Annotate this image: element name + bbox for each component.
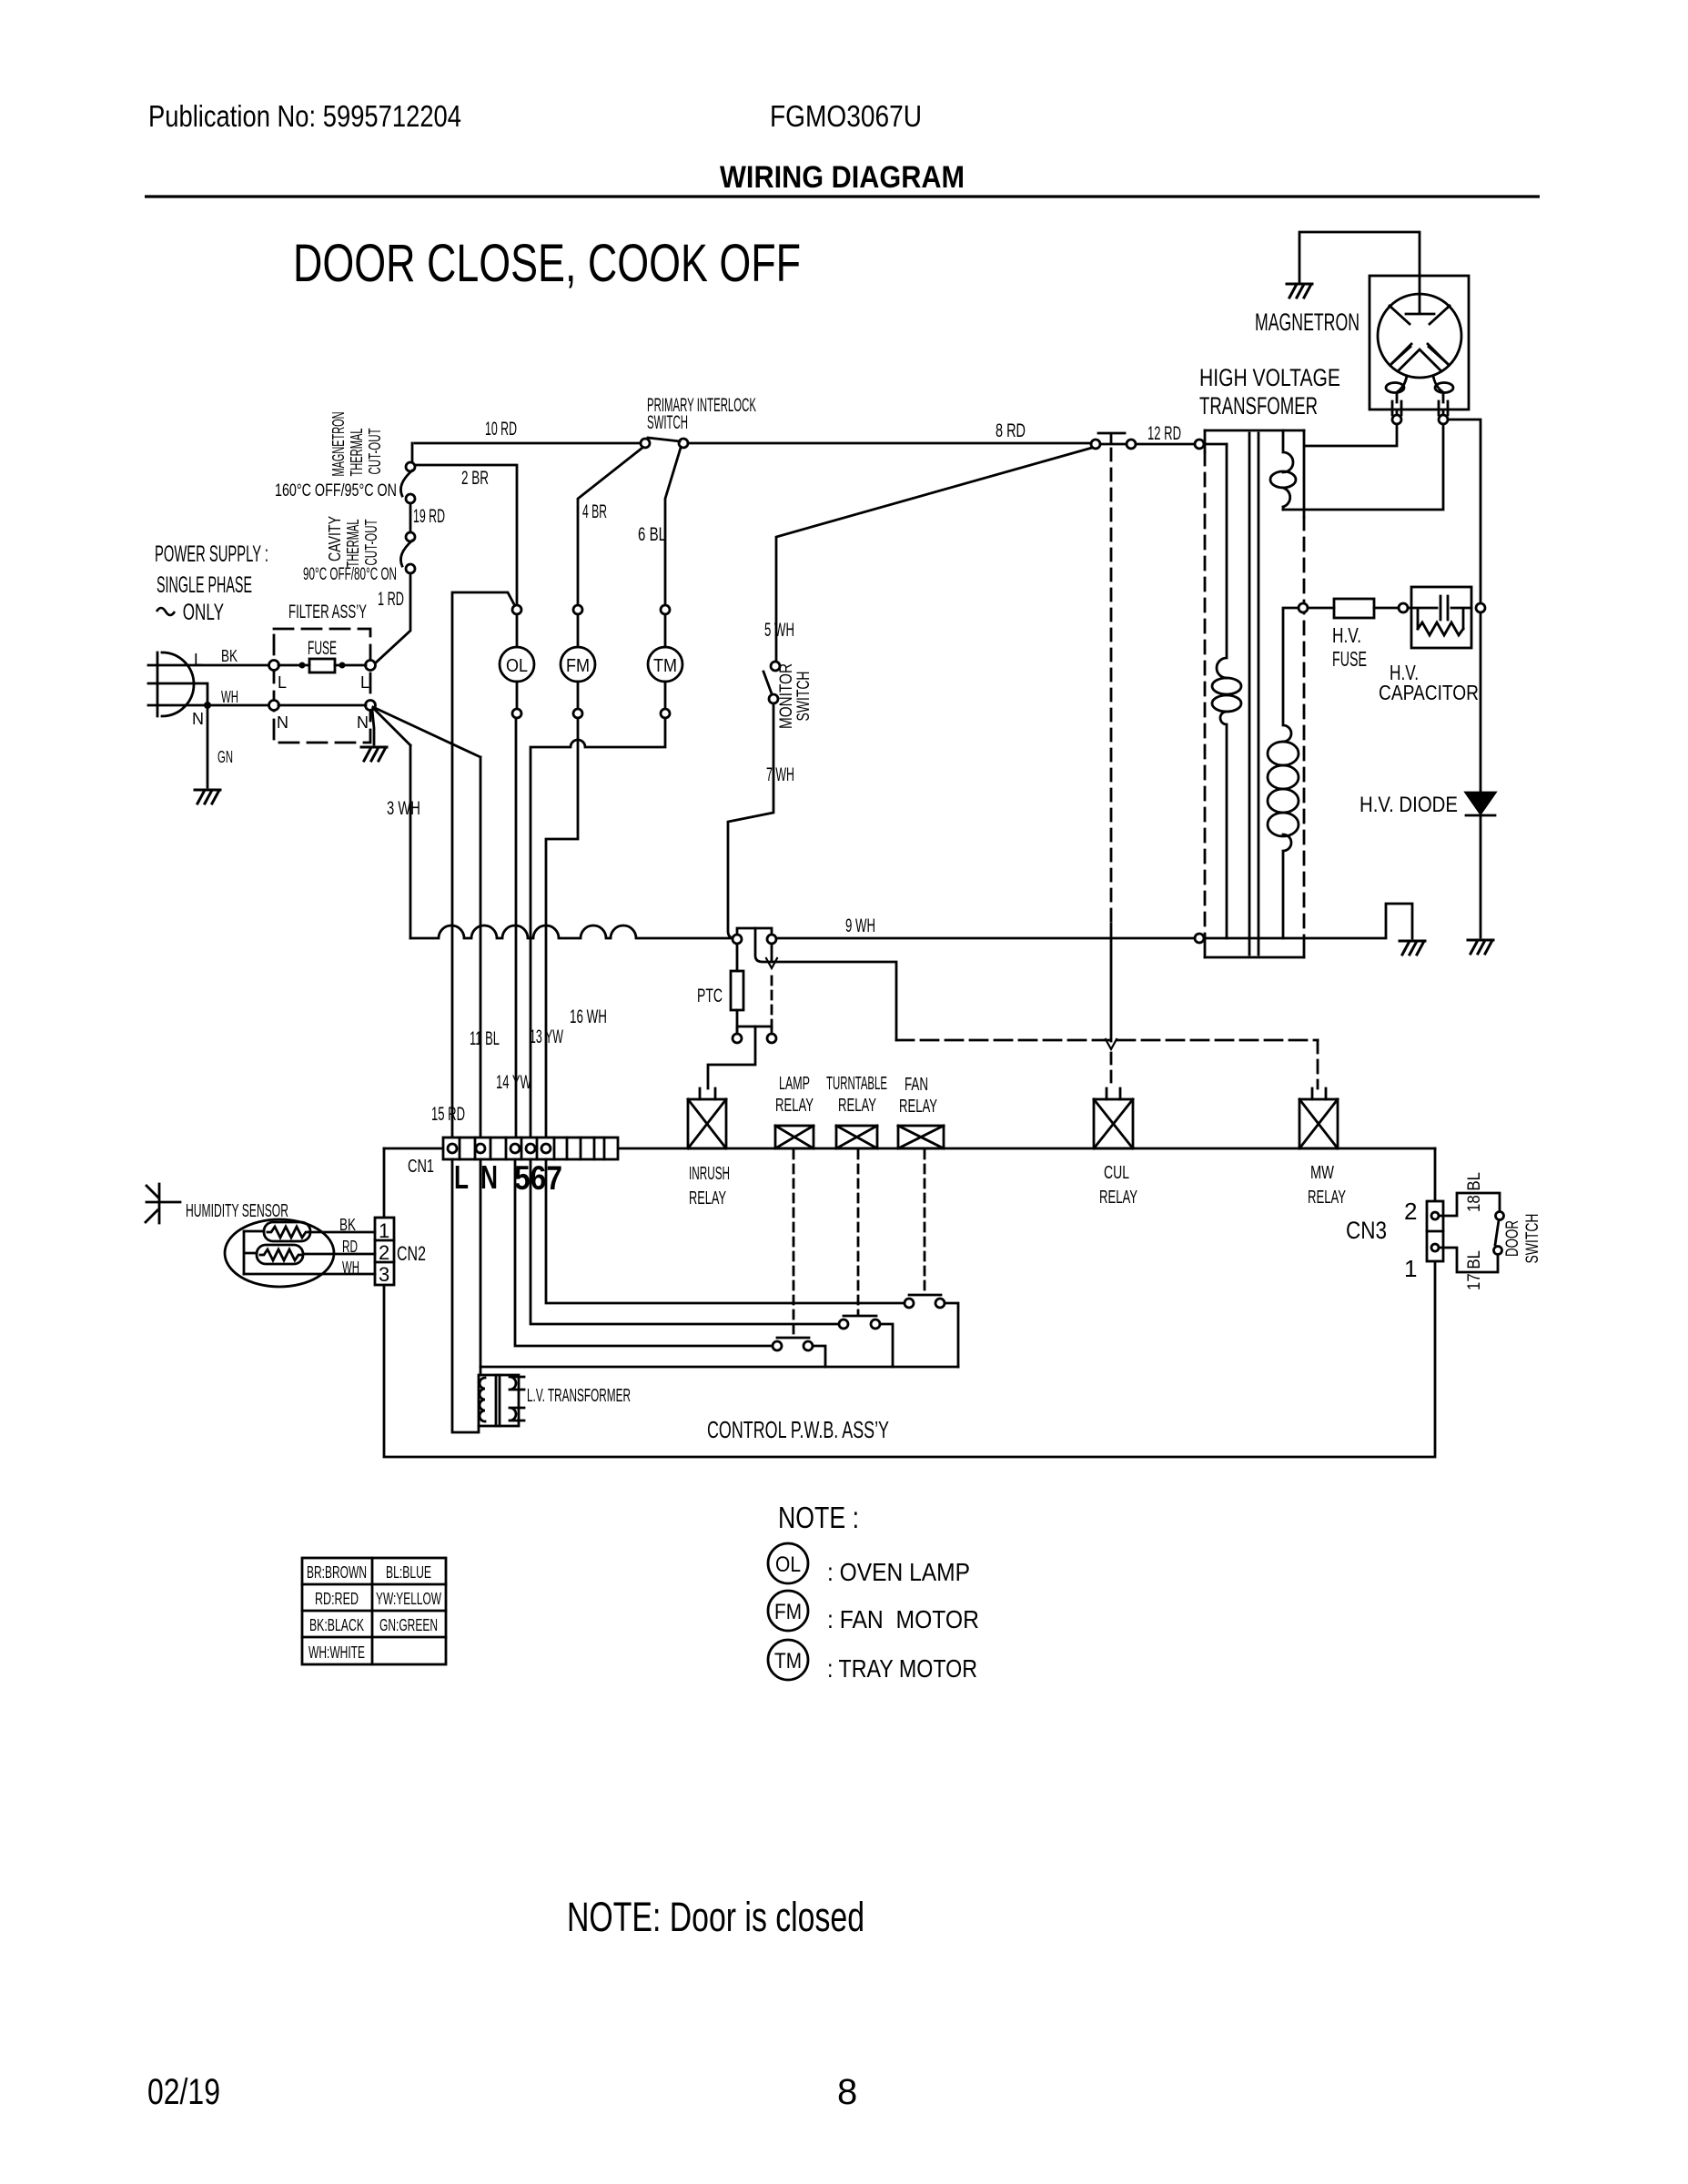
svg-text:2 BR: 2 BR [461, 468, 489, 489]
HV capacitor box [1411, 587, 1471, 648]
wire 5WH to monitor switch [776, 448, 1092, 662]
svg-text:8: 8 [837, 2072, 857, 2112]
wire L to LV transformer [452, 1159, 479, 1432]
svg-text:GN: GN [217, 748, 233, 766]
node 12RD start [1127, 440, 1136, 449]
fan relay contact [905, 1299, 914, 1308]
wire 12RD [1136, 443, 1195, 446]
svg-text:N: N [480, 1158, 498, 1196]
wire 1RD to filter L [374, 573, 410, 664]
inrush relay coil box [688, 1099, 726, 1148]
wire 5 to lamp relay contact [515, 1159, 773, 1346]
wire 13YW tray motor to CN1 with hop [531, 718, 665, 1137]
svg-text:MW: MW [1310, 1163, 1334, 1183]
header rule [145, 195, 1540, 197]
svg-text:N: N [357, 713, 369, 732]
ground at diode [1468, 940, 1493, 954]
svg-text:13 YW: 13 YW [530, 1026, 563, 1047]
svg-text:TM: TM [653, 656, 677, 676]
turntable relay coil box [836, 1126, 877, 1148]
svg-text:L: L [194, 651, 203, 669]
monitor switch blade [763, 672, 773, 696]
svg-text:DOOR CLOSE, COOK OFF: DOOR CLOSE, COOK OFF [293, 234, 801, 293]
HV diode D1 [1466, 793, 1495, 814]
ground at filter [361, 747, 387, 761]
filter terminal N left [269, 701, 279, 711]
wire 15RD vertical to CN1 [452, 592, 515, 1137]
svg-text:INRUSH: INRUSH [689, 1164, 730, 1184]
primary interlock switch right contact [679, 439, 688, 448]
door switch upper contact [1496, 1212, 1504, 1220]
door switch blade [1495, 1220, 1499, 1245]
magnetron thermal cutout upper contact [406, 462, 415, 471]
magnetron thermal cutout blade [400, 470, 412, 496]
wire 6 to turntable relay contact [531, 1159, 839, 1324]
wire 8RD from interlock to junction [688, 442, 1091, 445]
svg-text:90°C OFF/80°C ON: 90°C OFF/80°C ON [303, 565, 397, 584]
monitor switch upper contact [771, 662, 780, 671]
wire plug L prong BK [148, 664, 269, 667]
control board left link to CN1 [384, 1148, 443, 1150]
wire capacitor rail down to diode [1480, 612, 1482, 793]
svg-text:16 WH: 16 WH [570, 1006, 607, 1027]
svg-text:POWER SUPPLY :: POWER SUPPLY : [155, 541, 268, 567]
magnetron filament leads and feedthrough ticks [1392, 376, 1448, 416]
svg-text:RELAY: RELAY [899, 1097, 937, 1117]
ground at plug GN [195, 790, 220, 804]
svg-text:TM: TM [774, 1649, 802, 1673]
svg-text:567: 567 [514, 1159, 562, 1197]
HV transformer filament winding top right [1283, 430, 1293, 510]
filter terminal L right [366, 661, 376, 671]
svg-text:MAGNETRON: MAGNETRON [329, 412, 348, 477]
svg-text:LAMP: LAMP [779, 1074, 810, 1094]
svg-text:WH:WHITE: WH:WHITE [308, 1643, 365, 1662]
svg-text:SWITCH: SWITCH [794, 672, 814, 722]
wire left filament to transformer [1306, 424, 1397, 446]
node oven lamp top [512, 605, 521, 614]
filter terminal L left [269, 661, 279, 671]
svg-text:FILTER ASS’Y: FILTER ASS’Y [288, 602, 367, 622]
wire return through transformer with notch to ground [1204, 904, 1412, 938]
lower bridge [737, 1026, 772, 1034]
svg-text:1: 1 [1404, 1255, 1417, 1282]
svg-text:FM: FM [774, 1600, 802, 1624]
wire HV fuse line [1308, 607, 1411, 610]
turntable relay contact [839, 1319, 848, 1329]
lamp relay contact [773, 1341, 782, 1350]
svg-text:8 RD: 8 RD [996, 420, 1026, 441]
legend OL circle [768, 1543, 808, 1583]
node tray motor top [661, 605, 670, 614]
svg-text:: FAN MOTOR: : FAN MOTOR [827, 1605, 979, 1633]
LV transformer core [496, 1375, 500, 1426]
svg-text:OL: OL [506, 656, 528, 676]
wire 14YW oven lamp to CN1 [515, 718, 518, 1137]
relay common row [480, 1366, 958, 1369]
svg-text:ONLY: ONLY [178, 600, 224, 625]
svg-text:7 WH: 7 WH [766, 764, 794, 785]
svg-text:THERMAL: THERMAL [344, 520, 362, 568]
magnetron cathode bar [1406, 313, 1434, 316]
svg-text:N: N [192, 710, 204, 728]
magnetron filament terminal right [1439, 415, 1448, 424]
svg-text:RELAY: RELAY [689, 1188, 726, 1208]
antenna symbol [146, 1184, 180, 1223]
svg-text:SWITCH: SWITCH [1523, 1214, 1542, 1264]
svg-text:1: 1 [379, 1219, 389, 1242]
svg-text:GN:GREEN: GN:GREEN [379, 1616, 438, 1634]
ground at transformer return [1400, 941, 1425, 955]
HV transformer secondary HV winding [1283, 608, 1299, 938]
svg-text:SINGLE PHASE: SINGLE PHASE [157, 572, 252, 598]
wire filter N internal [278, 704, 366, 707]
svg-text:15 RD: 15 RD [431, 1104, 465, 1125]
door switch wiring 18BL [1439, 1193, 1500, 1216]
svg-text:BK: BK [221, 647, 238, 665]
svg-text:FAN: FAN [905, 1075, 928, 1095]
svg-text:2: 2 [1404, 1198, 1417, 1225]
fan motor FM circle [577, 614, 580, 709]
svg-text:160°C OFF/95°C ON: 160°C OFF/95°C ON [275, 481, 397, 500]
svg-text:1 RD: 1 RD [378, 589, 404, 610]
svg-text:N: N [277, 713, 288, 732]
CN3 connector box [1427, 1201, 1443, 1261]
svg-text:3: 3 [379, 1263, 389, 1286]
inrush bypass left contact [733, 935, 742, 944]
svg-text:NOTE :: NOTE : [778, 1501, 859, 1534]
ground at magnetron anode [1287, 284, 1312, 298]
lamp relay coil box [775, 1126, 814, 1148]
cavity thermal cutout lower contact [406, 564, 415, 573]
svg-text:: TRAY MOTOR: : TRAY MOTOR [827, 1654, 977, 1683]
wire sensor BK to CN2 pin1 [310, 1231, 375, 1234]
svg-text:RELAY: RELAY [838, 1096, 876, 1116]
wire N to relay common row [480, 1159, 482, 1375]
svg-text:12 RD: 12 RD [1147, 423, 1181, 444]
svg-text:BK: BK [339, 1216, 356, 1234]
svg-text:TURNTABLE: TURNTABLE [826, 1074, 887, 1094]
svg-text:RD:RED: RD:RED [315, 1590, 359, 1608]
svg-text:MONITOR: MONITOR [777, 663, 796, 729]
LV transformer primary coil [480, 1378, 485, 1421]
svg-text:14 YW: 14 YW [496, 1072, 531, 1093]
humidity sensor element 2 [257, 1245, 303, 1264]
primary interlock switch blade [648, 438, 680, 441]
wire magnetron anode loop [1299, 232, 1420, 313]
svg-text:CUL: CUL [1104, 1163, 1129, 1183]
wire 6BL to tray motor [665, 448, 681, 605]
wire 4BR to fan motor [578, 448, 642, 605]
choke coil on 9WH line [410, 925, 733, 938]
wire right filament to transformer coil [1283, 424, 1443, 510]
svg-text:TRANSFOMER: TRANSFOMER [1199, 392, 1318, 420]
fuse F1 in filter [278, 664, 366, 667]
node fan motor top [573, 605, 582, 614]
svg-text:9 WH: 9 WH [845, 915, 875, 936]
svg-text:WH: WH [221, 688, 238, 706]
door switch lower contact [1494, 1247, 1502, 1255]
svg-text:DOOR: DOOR [1503, 1220, 1522, 1257]
PTC lower contact [733, 1034, 742, 1043]
power plug body [157, 652, 194, 716]
PTC resistor [736, 944, 739, 1034]
wire right filament to capacitor rail [1448, 420, 1481, 603]
inrush bypass right contact [767, 935, 776, 944]
magnetron thermal cutout lower contact [406, 494, 415, 503]
HV transformer outer box bottom [1205, 956, 1304, 959]
wire sensor WH to CN2 pin3 [244, 1273, 375, 1276]
svg-text:L: L [360, 673, 369, 692]
svg-text:6 BL: 6 BL [638, 524, 666, 545]
CN1 terminal strip [443, 1137, 618, 1159]
svg-text:02/19: 02/19 [147, 2072, 220, 2112]
tray motor bottom contact [661, 709, 670, 718]
svg-text:OL: OL [775, 1552, 801, 1577]
magnetron filament ellipse right [1435, 383, 1453, 393]
color code table [302, 1558, 446, 1664]
svg-text:H.V.: H.V. [1332, 623, 1361, 647]
node capacitor right [1476, 603, 1485, 612]
dashed linkage to lower contact [771, 976, 773, 1031]
svg-text:CONTROL P.W.B. ASS’Y: CONTROL P.W.B. ASS’Y [707, 1416, 889, 1443]
tilde symbol [157, 608, 175, 615]
wire 3WH filter N to choke [373, 708, 410, 938]
HV transformer outer box right dashed edge [1303, 430, 1306, 957]
svg-text:WIRING DIAGRAM: WIRING DIAGRAM [720, 160, 965, 195]
filter ground lead [372, 710, 374, 744]
node HV winding to fuse [1299, 603, 1308, 612]
linkage stub with arrow below right contact [771, 944, 773, 961]
door switch wiring 17BL [1439, 1248, 1498, 1272]
MW relay coil box [1299, 1099, 1338, 1148]
svg-text:CN1: CN1 [408, 1157, 434, 1177]
oven lamp OL circle [516, 614, 519, 709]
wire 19RD [409, 503, 412, 532]
svg-text:17 BL: 17 BL [1465, 1250, 1484, 1290]
HV transformer core lines [1249, 433, 1258, 955]
oven lamp bottom contact [512, 709, 521, 718]
svg-text:BK:BLACK: BK:BLACK [309, 1616, 364, 1634]
fan motor bottom contact [573, 709, 582, 718]
svg-text:11 BL: 11 BL [470, 1028, 500, 1049]
svg-text:CAPACITOR: CAPACITOR [1379, 681, 1479, 704]
humidity sensor element 1 [264, 1222, 310, 1241]
svg-text:RELAY: RELAY [1308, 1188, 1346, 1208]
wire plug ground prong [148, 683, 207, 787]
wire 10RD [412, 443, 641, 462]
node fuse to capacitor [1399, 603, 1408, 612]
svg-text:L.V. TRANSFORMER: L.V. TRANSFORMER [527, 1386, 631, 1406]
svg-text:4 BR: 4 BR [582, 501, 607, 522]
svg-text:THERMAL: THERMAL [348, 429, 366, 477]
junction bar between 8RD and 12RD [1098, 433, 1127, 444]
node 8RD end [1091, 440, 1100, 449]
svg-text:L: L [454, 1158, 469, 1196]
HV capacitor internals [1411, 596, 1471, 635]
svg-text:BR:BROWN: BR:BROWN [307, 1563, 367, 1582]
junction dot N and GN [204, 702, 211, 709]
svg-text:10 RD: 10 RD [485, 419, 517, 440]
CN2 connector box [375, 1218, 394, 1285]
legend FM circle [768, 1591, 808, 1631]
monitor switch lower contact [769, 694, 778, 703]
svg-text:RELAY: RELAY [775, 1096, 814, 1116]
wire 7WH monitor switch to PTC node [728, 703, 773, 938]
LV transformer box [479, 1375, 519, 1426]
svg-text:MAGNETRON: MAGNETRON [1255, 308, 1359, 336]
wire sensor RD to CN2 pin2 [303, 1253, 375, 1256]
fan relay coil box [898, 1126, 944, 1148]
svg-text:NOTE: Door is closed: NOTE: Door is closed [567, 1894, 864, 1940]
svg-text:H.V. DIODE: H.V. DIODE [1359, 793, 1458, 817]
tray motor TM circle [664, 614, 667, 709]
svg-text:CAVITY: CAVITY [326, 516, 344, 561]
CUL relay coil box [1094, 1099, 1133, 1148]
svg-text:SWITCH: SWITCH [647, 412, 688, 433]
wire transformer return 9WH right section [776, 937, 1195, 940]
svg-text:Publication No: 5995712204: Publication No: 5995712204 [148, 99, 461, 133]
legend TM circle [768, 1640, 808, 1680]
cavity thermal cutout upper contact [406, 532, 415, 541]
HV transformer outer box top [1205, 430, 1304, 432]
control board top bus [618, 1148, 1435, 1150]
control board outline left bottom right [384, 1148, 1435, 1457]
magnetron internal X strokes [1390, 306, 1450, 363]
svg-text:PTC: PTC [697, 986, 723, 1006]
svg-text:FUSE: FUSE [308, 638, 337, 659]
wire 11BL filter N to CN1 [373, 707, 480, 1137]
wire 16WH fan motor to CN1 [546, 718, 578, 1137]
node transformer return [1195, 934, 1204, 943]
svg-text:HIGH VOLTAGE: HIGH VOLTAGE [1199, 364, 1340, 391]
svg-text:CUT-OUT: CUT-OUT [362, 520, 380, 566]
svg-text:: OVEN LAMP: : OVEN LAMP [827, 1558, 970, 1586]
svg-text:HUMIDITY SENSOR: HUMIDITY SENSOR [186, 1201, 288, 1221]
wire 7 to fan relay contact [546, 1159, 905, 1303]
magnetron filament terminal left [1392, 415, 1401, 424]
svg-text:FGMO3067U: FGMO3067U [770, 99, 922, 133]
primary interlock switch left contact [641, 439, 650, 448]
HV transformer primary winding left [1217, 444, 1227, 938]
svg-text:BL:BLUE: BL:BLUE [386, 1563, 431, 1582]
svg-text:2: 2 [379, 1241, 389, 1264]
wire 2BR to oven lamp [415, 465, 517, 605]
bypass lower contact [767, 1034, 776, 1043]
svg-text:3 WH: 3 WH [387, 798, 420, 819]
svg-text:19 RD: 19 RD [413, 506, 445, 527]
magnetron enclosure box [1370, 276, 1469, 409]
svg-text:RD: RD [342, 1238, 358, 1256]
humidity sensor body [225, 1219, 334, 1287]
svg-text:CN2: CN2 [397, 1242, 426, 1265]
svg-text:YW:YELLOW: YW:YELLOW [376, 1590, 441, 1608]
dashed linkage horizontal to MW relay [896, 1039, 1318, 1042]
wire bridge tap to relay sense line [755, 928, 896, 1040]
svg-text:WH: WH [342, 1259, 359, 1277]
filter terminal N right [366, 701, 376, 711]
HV fuse body [1334, 599, 1374, 618]
dashed linkage from junction to CUL relay [1110, 449, 1113, 924]
wire to inrush relay coil [708, 1026, 755, 1088]
svg-text:CUT-OUT: CUT-OUT [366, 429, 384, 475]
inrush bypass closed bridge [737, 928, 772, 935]
filter assembly box [274, 629, 370, 743]
arrow on linkage at CUL [1106, 1039, 1117, 1049]
LV transformer secondary taps [510, 1377, 524, 1421]
svg-text:L: L [278, 673, 287, 692]
CN1 pin circles [448, 1144, 457, 1153]
svg-text:FM: FM [566, 656, 590, 676]
magnetron U1 circle [1378, 294, 1461, 378]
svg-text:RELAY: RELAY [1099, 1188, 1137, 1208]
cavity thermal cutout blade [400, 541, 412, 566]
svg-text:CN3: CN3 [1346, 1217, 1387, 1244]
node 12RD at transformer [1195, 440, 1204, 449]
svg-text:FUSE: FUSE [1332, 647, 1367, 671]
magnetron internal chevrons [1390, 344, 1449, 371]
svg-text:5 WH: 5 WH [764, 620, 794, 641]
wire plug N prong WH [148, 704, 269, 707]
HV transformer outer box left dashed edge [1204, 430, 1207, 957]
svg-text:18 BL: 18 BL [1465, 1172, 1484, 1212]
humidity sensor internal wires [244, 1231, 264, 1274]
magnetron filament ellipse left [1386, 383, 1404, 393]
